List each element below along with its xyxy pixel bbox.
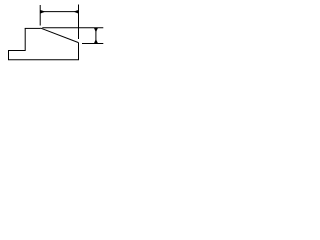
- extension line left (top dimension): [39, 5, 41, 26]
- extension line top (right dimension): [42, 27, 103, 29]
- part right / bottom / step / left edges: [9, 28, 79, 59]
- dimension line horizontal (top): [40, 11, 78, 13]
- part top edge: [25, 27, 41, 29]
- arrowhead bottom (base at bottom extension line, tip up): [94, 40, 97, 43]
- arrowhead left (base at left extension line, tip inward): [41, 10, 45, 13]
- extension line right (top dimension): [78, 5, 80, 40]
- background: [0, 0, 111, 66]
- dimension line vertical (right): [95, 28, 97, 44]
- arrowhead right (base at right extension line, tip inward): [74, 10, 78, 13]
- arrowhead top (base at top extension line, tip down): [94, 28, 97, 31]
- extension line bottom (right dimension): [82, 43, 103, 45]
- part chamfer (diagonal edge): [41, 28, 79, 43]
